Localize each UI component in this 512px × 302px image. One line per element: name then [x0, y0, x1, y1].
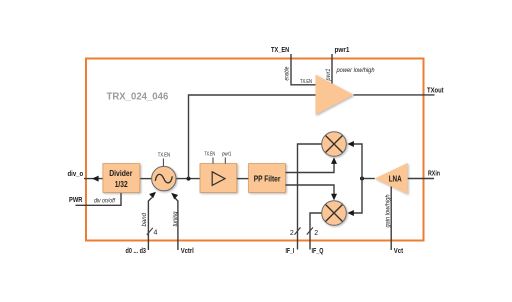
mixer bottom (Q) [322, 201, 347, 226]
junction node LNA output [360, 177, 364, 181]
wire pwr1 down to PA [331, 54, 333, 86]
oscillator VCO circle [152, 166, 176, 190]
wire TX_EN down to PA enable [291, 54, 316, 85]
svg-text:tuning: tuning [173, 211, 179, 227]
svg-text:Divider: Divider [109, 168, 133, 178]
arrowhead into bottom mixer [347, 210, 354, 216]
mixer top (I) [322, 132, 347, 157]
LNA triangle [375, 163, 408, 194]
svg-text:band: band [142, 212, 148, 226]
wire RXin pad to LNA [408, 178, 434, 180]
svg-text:TX.EN: TX.EN [158, 153, 170, 159]
wire PWR to divider [76, 193, 122, 205]
junction node at oscillator output [187, 177, 191, 181]
svg-text:gain low/high: gain low/high [385, 194, 391, 228]
arrowhead LO up [331, 157, 337, 164]
arrowhead LO down [331, 194, 337, 201]
wire amplifier to PP filter [237, 178, 249, 180]
svg-text:Vct: Vct [394, 246, 404, 255]
mixer bottom X symbol [326, 205, 343, 222]
PP filter block [249, 164, 286, 193]
wire div_o output [84, 178, 103, 180]
wire oscillator to amplifier [176, 178, 200, 180]
svg-text:TXout: TXout [427, 86, 444, 95]
svg-text:div on/off: div on/off [94, 199, 116, 205]
bus slash IF_Q [307, 227, 313, 234]
wire junction to top mixer RF input [351, 144, 362, 179]
amplifier block A1 [200, 164, 237, 193]
svg-text:d0 ... d3: d0 ... d3 [126, 246, 147, 255]
block divider 1/32 [103, 164, 140, 193]
svg-text:TRX_024_046: TRX_024_046 [107, 91, 169, 103]
wire Vct gain control to LNA [390, 187, 392, 251]
bus slash IF_I [295, 227, 301, 234]
svg-text:LNA: LNA [389, 174, 402, 184]
svg-text:IF_Q: IF_Q [312, 246, 324, 255]
svg-text:IF_I: IF_I [286, 246, 295, 255]
wire tuning input to oscillator [175, 198, 178, 251]
svg-text:TX.EN: TX.EN [204, 151, 215, 157]
oscillator sine symbol [155, 174, 172, 182]
svg-text:div_o: div_o [68, 169, 84, 178]
svg-text:pwr1: pwr1 [326, 69, 332, 82]
wire LNA output to junction [362, 178, 375, 180]
svg-text:pwr1: pwr1 [222, 151, 231, 157]
svg-text:4: 4 [154, 230, 158, 237]
svg-text:RXin: RXin [428, 169, 440, 178]
svg-text:PWR: PWR [69, 195, 83, 204]
svg-text:2: 2 [314, 230, 318, 237]
chip boundary box [86, 59, 424, 241]
wire divider to oscillator [140, 178, 152, 180]
svg-text:2: 2 [290, 230, 294, 237]
svg-text:pwr1: pwr1 [335, 45, 350, 54]
arrowhead tuning [169, 191, 178, 200]
svg-text:1/32: 1/32 [115, 179, 128, 189]
power amplifier PA triangle [316, 75, 354, 115]
wire PA to TXout pad [354, 94, 435, 96]
oscillator TX.EN enable stub [162, 159, 164, 167]
arrowhead div_o [92, 176, 99, 182]
wire top mixer IF out to IF_I pad [298, 144, 322, 250]
svg-text:Vctrl: Vctrl [181, 246, 194, 255]
svg-text:TX.EN: TX.EN [300, 79, 312, 85]
amplifier TX.EN stub [212, 158, 214, 164]
arrowhead band [149, 190, 158, 199]
wire junction up to PA input [189, 95, 316, 179]
wire PP filter upper LO to top mixer [286, 161, 335, 173]
wire PP filter lower LO to bottom mixer [286, 185, 335, 197]
svg-text:enable: enable [285, 66, 291, 81]
arrowhead into top mixer [347, 141, 354, 147]
wire junction to bottom mixer RF input [351, 179, 362, 214]
svg-text:power low/high: power low/high [336, 67, 375, 74]
mixer top X symbol [326, 136, 343, 153]
wire band input to oscillator [148, 198, 151, 250]
svg-text:TX_EN: TX_EN [271, 45, 289, 54]
wire bottom mixer IF out to IF_Q pad [310, 213, 322, 250]
amplifier triangle symbol [212, 172, 225, 186]
svg-text:PP Filter: PP Filter [254, 174, 281, 184]
bus slash band [147, 228, 153, 235]
amplifier pwr1 stub [224, 158, 226, 164]
